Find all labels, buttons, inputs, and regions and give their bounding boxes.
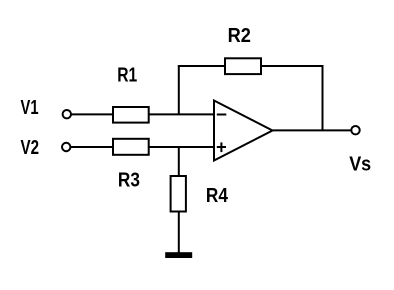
wire R4 to ground bbox=[178, 212, 180, 253]
resistor R3 bbox=[113, 139, 149, 155]
svg-text:V2: V2 bbox=[21, 137, 40, 159]
resistor R1 bbox=[113, 107, 149, 123]
wire R1 to op-amp inverting input bbox=[149, 113, 215, 115]
terminal Vs bbox=[351, 126, 359, 134]
op-amp non-inverting input plus sign (horizontal bar) bbox=[217, 146, 226, 148]
wire R3 to op-amp non-inverting input bbox=[149, 146, 215, 148]
svg-text:V1: V1 bbox=[21, 97, 39, 119]
wire feedback top right segment bbox=[261, 65, 324, 67]
wire V1 terminal to R1 bbox=[71, 113, 113, 115]
op-amp non-inverting input plus sign (vertical bar) bbox=[220, 142, 222, 152]
svg-text:R1: R1 bbox=[117, 65, 137, 87]
wire op-amp output to Vs terminal bbox=[273, 129, 352, 131]
wire node to R4 (vertical from non-inverting input wire) bbox=[178, 147, 180, 176]
resistor R2 bbox=[225, 58, 261, 74]
svg-text:R4: R4 bbox=[206, 185, 229, 207]
wire feedback right vertical down to output node bbox=[322, 65, 324, 130]
op-amp U1 bbox=[214, 101, 273, 161]
op-amp inverting input minus sign bbox=[217, 114, 227, 116]
terminal V2 bbox=[62, 143, 70, 151]
wire feedback left vertical (node at R1 output) bbox=[178, 66, 180, 114]
wire V2 terminal to R3 bbox=[71, 146, 113, 148]
wire feedback top left segment bbox=[178, 65, 225, 67]
resistor R4 bbox=[171, 176, 186, 212]
svg-text:R2: R2 bbox=[228, 25, 251, 47]
ground bbox=[165, 252, 192, 258]
svg-text:Vs: Vs bbox=[349, 154, 371, 176]
terminal V1 bbox=[63, 110, 71, 118]
svg-text:R3: R3 bbox=[118, 170, 140, 192]
